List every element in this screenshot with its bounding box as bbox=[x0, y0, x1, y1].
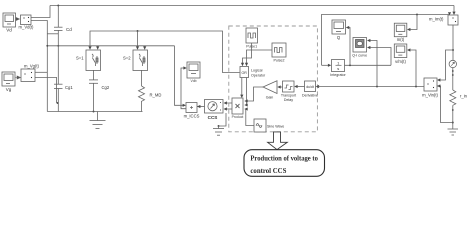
svg-text:m_ICCS: m_ICCS bbox=[184, 114, 200, 119]
logical operator OR bbox=[240, 67, 249, 78]
gate distribution line bbox=[90, 31, 240, 73]
node Cd / bus2 bbox=[57, 45, 59, 47]
arrow into v/m scope bbox=[407, 48, 410, 51]
pulse generator Pulse1 bbox=[246, 28, 258, 43]
arrow bus2 into S2 bbox=[143, 46, 146, 49]
svg-text:Cg2: Cg2 bbox=[102, 85, 110, 90]
svg-text:m_Vin(t): m_Vin(t) bbox=[422, 93, 438, 98]
wire riser to m(t) scope bbox=[409, 15, 417, 30]
arrow into m_ICCS left bbox=[183, 104, 186, 107]
wire m_Vin signal line to derivative bbox=[318, 86, 424, 88]
arrow into product top bbox=[240, 95, 243, 98]
measurement block m_Im(t) bbox=[448, 15, 458, 25]
svg-text:Operator: Operator bbox=[251, 74, 266, 78]
wire gate drop S2 bbox=[137, 31, 139, 49]
node dots below source bbox=[452, 70, 454, 72]
node signal line / vm riser bbox=[415, 86, 417, 88]
arrow into scope Vg bbox=[15, 76, 20, 79]
svg-text:v/m(t): v/m(t) bbox=[395, 59, 406, 64]
arrow into Q scope bbox=[346, 26, 349, 29]
wire branch to m_Vin plus bbox=[439, 50, 454, 80]
arrow into gain bbox=[277, 85, 280, 88]
wire m_Vg top output to bus2 bbox=[35, 71, 47, 73]
arrow into m_Im left bbox=[448, 12, 451, 15]
wire sine wave to product bbox=[246, 109, 254, 126]
ground right bbox=[448, 129, 459, 135]
svg-text:m_Vg(t): m_Vg(t) bbox=[24, 64, 39, 69]
wire S2 bottom to R_MD bbox=[141, 70, 143, 86]
svg-text:Gain: Gain bbox=[266, 96, 274, 100]
wire CCS to ground bbox=[219, 113, 227, 126]
svg-text:Delay: Delay bbox=[284, 98, 293, 102]
arrow into product middle bbox=[244, 103, 247, 106]
wire source to resistor bbox=[452, 68, 454, 90]
node right return bbox=[452, 122, 454, 124]
arrow into integrator bbox=[328, 64, 331, 67]
wire Cd branch lower bbox=[57, 30, 59, 45]
wire bus2 stub into S2 bbox=[144, 46, 146, 48]
arrow gate into S1 bbox=[88, 46, 91, 49]
scope Q bbox=[332, 20, 346, 34]
arrow into CCS lower bbox=[224, 107, 227, 110]
svg-text:OR: OR bbox=[242, 71, 248, 75]
node below m_Im bbox=[452, 49, 454, 51]
arrow into scope Vd bbox=[16, 17, 20, 20]
node r_in bottom bbox=[452, 109, 454, 111]
node bus2 left riser bbox=[46, 45, 48, 47]
wire integrator output bbox=[345, 64, 392, 66]
current source block CCS bbox=[205, 100, 224, 114]
arrow into m_Vin right lower bbox=[437, 84, 440, 87]
wire OR second drop to product middle bbox=[245, 78, 248, 106]
wire bus2 drop to m_ICCS bbox=[175, 46, 185, 106]
Q-I curve block bbox=[353, 38, 367, 53]
sine wave block bbox=[254, 119, 266, 132]
measurement block m_ICCS bbox=[186, 103, 197, 113]
svg-text:Integrator: Integrator bbox=[330, 73, 346, 77]
arrow into CCS upper bbox=[224, 101, 227, 104]
svg-text:Q-I curve: Q-I curve bbox=[352, 54, 367, 58]
switch S1 bbox=[86, 50, 101, 71]
svg-text:Cd: Cd bbox=[66, 27, 72, 32]
wire bus2 stub into S1 bbox=[97, 46, 99, 48]
pulse generator Pulse2 bbox=[272, 43, 286, 57]
arrow into transport delay bbox=[294, 85, 297, 88]
source circle bbox=[449, 60, 456, 67]
arrow into m(t) scope bbox=[407, 28, 410, 31]
wire product to CCS lower bbox=[225, 108, 233, 110]
wire transport delay to gain bbox=[279, 86, 283, 88]
svg-text:control CCS: control CCS bbox=[250, 166, 286, 175]
svg-text:CCS: CCS bbox=[208, 115, 218, 120]
measurement block m_Vd(t) bbox=[21, 15, 32, 25]
wire OR output down to product top bbox=[241, 78, 243, 97]
control dashed box bbox=[229, 26, 318, 132]
arrow into m_ICCS right bbox=[197, 105, 200, 108]
svg-text:S=1: S=1 bbox=[76, 56, 84, 61]
wire m_Vd minus tap to Cd node bbox=[47, 33, 58, 35]
arrow into m_Im top bbox=[452, 12, 455, 15]
ground CCS bbox=[213, 126, 224, 135]
transport delay block bbox=[283, 81, 295, 92]
node integrator output bbox=[349, 64, 351, 66]
svg-text:Vdb: Vdb bbox=[190, 79, 196, 83]
arrow into m_Vin right upper bbox=[437, 78, 440, 81]
svg-text:Pulse2: Pulse2 bbox=[274, 59, 285, 63]
wire m_Vin minus to return node bbox=[437, 86, 453, 123]
node gate line S2 bbox=[137, 30, 139, 32]
resistor R_MD bbox=[139, 86, 145, 101]
svg-text:Logical: Logical bbox=[251, 69, 263, 73]
capacitor Cd bbox=[54, 27, 63, 30]
measurement block m_Vin(t) bbox=[424, 78, 437, 91]
wire R_MD to bottom bus bbox=[141, 101, 143, 112]
wire Cd branch upper bbox=[57, 6, 59, 28]
wire derivative to transport delay bbox=[296, 86, 305, 88]
ground left bbox=[90, 112, 106, 129]
wire Pulse2 to OR bbox=[247, 50, 273, 64]
svg-text:Transport: Transport bbox=[281, 94, 296, 98]
wire to Q scope bbox=[348, 28, 350, 66]
node signal line / QI riser bbox=[376, 86, 378, 88]
wire S1 bottom to Cg2 bbox=[93, 70, 95, 80]
scope m(t) bbox=[394, 23, 407, 37]
svg-text:m_Im(t): m_Im(t) bbox=[429, 17, 444, 22]
svg-text:Product: Product bbox=[232, 115, 244, 119]
wire m_Vd bottom output to bus2 riser bbox=[31, 21, 47, 112]
node bottom bus Cg2 bbox=[93, 111, 95, 113]
svg-text:R_MD: R_MD bbox=[150, 93, 162, 98]
wire top bus down to m_Im bbox=[453, 6, 455, 14]
wire Cg1 branch lower bbox=[57, 89, 59, 112]
top bus bbox=[50, 5, 454, 7]
wire Pulse1 to OR bbox=[243, 43, 252, 64]
svg-text:Vd: Vd bbox=[6, 28, 12, 33]
arrow into derivative right bbox=[316, 85, 319, 88]
wire Cg1 branch upper bbox=[57, 46, 59, 84]
wire m_Im bottom down bbox=[452, 25, 454, 60]
wire riser to v/m scope bbox=[409, 50, 416, 87]
svg-text:Derivative: Derivative bbox=[302, 94, 318, 98]
arrow into product lower bbox=[244, 107, 247, 110]
switch S2 bbox=[133, 50, 148, 71]
arrow into Vdb scope bbox=[183, 66, 186, 69]
capacitor Cg2 bbox=[89, 80, 98, 83]
wire gain output to product bbox=[246, 87, 263, 101]
wire r_in to ground bbox=[452, 105, 454, 129]
svg-text:Sine Wave: Sine Wave bbox=[267, 125, 284, 129]
callout arrow bbox=[268, 132, 288, 150]
bus2 bbox=[47, 45, 174, 47]
scope Vg bbox=[2, 72, 15, 86]
arrow into Q-I curve upper bbox=[367, 39, 370, 42]
scope v/m(t) bbox=[394, 44, 407, 58]
wire Cg2 to bottom bus bbox=[93, 83, 95, 111]
arrow Pulse1 into OR bbox=[241, 63, 244, 66]
bottom bus bbox=[47, 111, 142, 113]
node Cg1 lower bbox=[57, 102, 59, 104]
arrow into Q-I curve lower bbox=[367, 46, 370, 49]
node CCS ground bbox=[218, 125, 220, 127]
wire m_ICCS signal to Vdb scope bbox=[181, 68, 186, 109]
svg-text:Vg: Vg bbox=[6, 87, 12, 92]
measurement block m_Vg(t) bbox=[21, 69, 35, 82]
resistor r_in bbox=[450, 90, 456, 105]
product block bbox=[232, 98, 243, 114]
svg-text:r_in: r_in bbox=[460, 94, 468, 99]
wire integrator output to Q-I lower bbox=[369, 48, 391, 66]
svg-text:S=2: S=2 bbox=[123, 56, 131, 61]
derivative block bbox=[305, 81, 316, 92]
svg-text:du/dt: du/dt bbox=[306, 85, 314, 89]
scope Vd bbox=[3, 13, 16, 27]
callout box bbox=[244, 150, 325, 177]
arrow gate into S2 bbox=[136, 46, 139, 49]
svg-text:Production of voltage to: Production of voltage to bbox=[250, 153, 318, 162]
wire m_Vg bottom output down to Cg1 bottom node bbox=[35, 78, 57, 104]
arrow bus2 into S1 bbox=[96, 46, 99, 49]
right feed line to m_Im bbox=[322, 13, 450, 66]
arrow Pulse2 into OR bbox=[245, 63, 248, 66]
svg-text:Cg1: Cg1 bbox=[65, 85, 73, 90]
wire CCS to m_ICCS bbox=[197, 106, 205, 108]
scope Vdb bbox=[187, 62, 200, 78]
integrator block bbox=[332, 60, 345, 72]
svg-text:s: s bbox=[337, 66, 339, 71]
svg-text:m(t): m(t) bbox=[397, 37, 405, 42]
arrow into product upper bbox=[244, 99, 247, 102]
node top bus / Cd bbox=[57, 5, 59, 7]
gain block (left pointing triangle) bbox=[263, 81, 277, 94]
wire product to CCS upper bbox=[225, 102, 233, 104]
capacitor Cg1 bbox=[54, 84, 63, 88]
node feed line / m(t) riser bbox=[416, 14, 418, 16]
wire riser to Q-I curve upper bbox=[369, 41, 377, 87]
svg-text:m_Vd(t): m_Vd(t) bbox=[19, 25, 34, 30]
wire m_Vd top output to top bus bbox=[31, 6, 50, 18]
